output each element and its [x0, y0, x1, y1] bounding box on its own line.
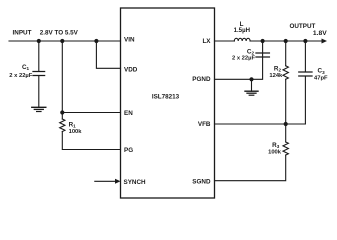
svg-text:1.5µH: 1.5µH [234, 27, 250, 34]
svg-text:47pF: 47pF [314, 75, 328, 81]
svg-text:SGND: SGND [192, 178, 211, 185]
svg-text:VDD: VDD [124, 66, 138, 73]
svg-text:LX: LX [202, 38, 211, 45]
svg-text:2 x 22µF: 2 x 22µF [232, 56, 255, 62]
svg-text:PGND: PGND [192, 76, 211, 83]
svg-text:PG: PG [124, 147, 133, 154]
svg-text:OUTPUT: OUTPUT [289, 23, 315, 30]
svg-text:ISL78213: ISL78213 [152, 94, 180, 101]
svg-text:1.8V: 1.8V [313, 30, 327, 37]
svg-text:EN: EN [124, 110, 133, 117]
svg-text:VIN: VIN [124, 37, 135, 44]
svg-text:2 x 22µF: 2 x 22µF [9, 73, 32, 79]
svg-text:INPUT: INPUT [13, 30, 32, 37]
svg-text:VFB: VFB [198, 121, 211, 128]
svg-text:SYNCH: SYNCH [124, 179, 146, 186]
svg-text:124k: 124k [269, 73, 283, 79]
svg-text:2.8V TO 5.5V: 2.8V TO 5.5V [40, 30, 79, 37]
svg-text:100k: 100k [69, 129, 83, 135]
svg-text:100k: 100k [268, 149, 282, 155]
